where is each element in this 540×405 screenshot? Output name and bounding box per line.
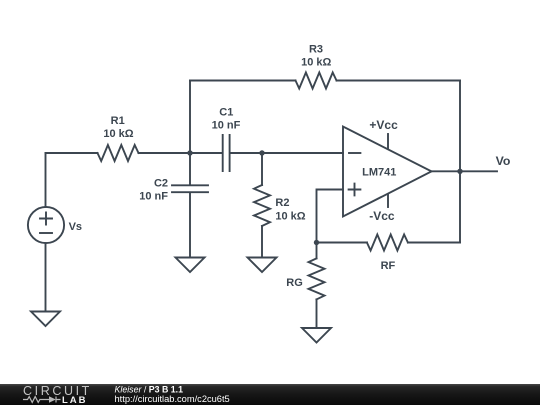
wire right rail: [459, 81, 461, 243]
wire plus input: [317, 190, 344, 243]
junction node B: [259, 150, 264, 155]
logo diode: [49, 396, 56, 402]
wire R2 to ground: [261, 226, 263, 258]
svg-text:10 nF: 10 nF: [212, 120, 241, 132]
svg-text:R2: R2: [275, 197, 289, 209]
wire RG to ground: [316, 299, 318, 328]
svg-text:10 kΩ: 10 kΩ: [275, 210, 305, 222]
resistor RF: [367, 235, 408, 251]
resistor R3: [296, 73, 337, 89]
capacitor C2: [172, 185, 208, 192]
junction feedback node: [314, 240, 319, 245]
svg-text:R3: R3: [309, 44, 323, 56]
svg-text:10 kΩ: 10 kΩ: [103, 128, 133, 140]
resistor RG: [309, 258, 325, 299]
wire RF left: [317, 242, 367, 244]
wire Vs bottom: [45, 243, 47, 311]
svg-text:LAB: LAB: [62, 395, 88, 405]
svg-text:10 nF: 10 nF: [139, 191, 168, 203]
ground RG: [302, 328, 331, 343]
svg-text:LM741: LM741: [362, 167, 396, 179]
svg-text:RG: RG: [286, 277, 303, 289]
wire output: [432, 170, 498, 172]
svg-text:10 kΩ: 10 kΩ: [301, 57, 331, 69]
ground R2: [248, 258, 277, 273]
svg-text:RF: RF: [381, 260, 396, 272]
source Vs: [28, 207, 64, 243]
wire C2 to ground: [189, 193, 191, 257]
svg-text:Vs: Vs: [69, 221, 82, 233]
junction node A: [187, 150, 192, 155]
footer bar: [0, 384, 540, 405]
op-amp minus pin symbol: [349, 152, 360, 154]
svg-text:-Vcc: -Vcc: [369, 209, 395, 223]
svg-text:Kleiser / P3 B 1.1: Kleiser / P3 B 1.1: [115, 384, 184, 394]
wire RG top: [316, 243, 318, 259]
Vs plus sign: [40, 213, 52, 225]
junction output node: [457, 169, 462, 174]
wire C1 to op-amp minus: [231, 152, 343, 154]
wire node A down to C2: [189, 153, 191, 184]
op-amp +Vcc stub: [387, 134, 389, 148]
wire top left: [190, 80, 296, 82]
svg-text:Vo: Vo: [496, 154, 511, 168]
wire Vs top: [45, 153, 47, 207]
resistor R2: [254, 185, 270, 226]
svg-text:C2: C2: [154, 177, 168, 189]
wire RF right: [408, 242, 460, 244]
svg-text:C1: C1: [219, 107, 233, 119]
resistor R1: [98, 145, 139, 161]
op-amp U1 LM741: [343, 127, 432, 217]
wire node A up: [189, 81, 191, 154]
wire R1 to C1: [139, 152, 222, 154]
wire node B down: [261, 153, 263, 185]
svg-text:+Vcc: +Vcc: [369, 118, 398, 132]
op-amp -Vcc stub: [387, 194, 389, 207]
capacitor C1: [223, 135, 230, 171]
svg-text:http://circuitlab.com/c2cu6t5: http://circuitlab.com/c2cu6t5: [115, 394, 230, 404]
ground Vs: [31, 312, 60, 327]
wire top right: [337, 80, 461, 82]
logo squiggle resistor: [23, 397, 61, 403]
Vs minus sign: [40, 232, 52, 234]
ground C2: [176, 258, 205, 273]
svg-text:R1: R1: [111, 115, 125, 127]
op-amp plus pin symbol: [349, 184, 361, 196]
wire main input: [46, 152, 98, 154]
